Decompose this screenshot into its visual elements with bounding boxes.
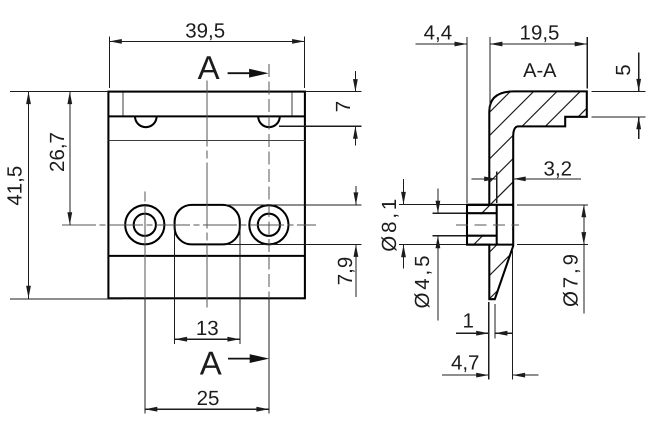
svg-text:25: 25 [197,387,220,410]
svg-text:7: 7 [332,101,355,112]
dim line 5 upper seg [638,53,640,92]
svg-text:7,9: 7,9 [334,257,357,286]
arrows 26,7 [67,92,72,105]
arrows section view [401,42,641,378]
outer rectangle of plate [108,92,305,299]
boss top edge into plate [467,204,513,206]
ext line d8,1 top [399,204,466,206]
dim line 3,2 left seg [472,178,497,180]
voids (holes) over hatch [466,206,512,244]
arrows d4,5 [436,201,441,214]
slot vertical centerline [206,81,208,308]
ext line d7,9 top [517,204,588,206]
centerlines front view [62,64,316,308]
arrows d7,9 [581,205,586,218]
hole axis horizontal centerline [62,224,316,226]
lip edge line [108,115,305,117]
dim line 7 upper seg [354,71,356,92]
svg-text:39,5: 39,5 [185,19,225,42]
ext line 5 bottom [592,116,646,118]
dim line 39,5 [109,40,304,42]
dim line 19,5 [490,43,587,45]
dim line 7,9 lower seg [355,244,357,297]
section internal edges [467,205,513,245]
dim line d8,1 upper seg [403,179,405,205]
svg-text:A-A: A-A [523,60,557,82]
hole left outer [125,205,164,244]
section arrow top [228,72,251,74]
dim line 1 right seg [495,332,513,334]
hole right outer [249,205,288,244]
part outline front view [108,92,305,299]
svg-text:4,4: 4,4 [424,22,453,45]
arrows d8,1 [401,192,406,205]
thin part edges front view [108,93,305,141]
dim line 4,7 right seg [513,374,539,376]
ext line 13 left (slot tangent) [174,225,176,344]
svg-text:41,5: 41,5 [4,166,27,206]
arrows front view [26,39,358,412]
dim line d8,1 lower seg [403,245,405,269]
svg-text:19,5: 19,5 [520,22,560,45]
ext line top-left [10,91,108,93]
section cutting line A-A dashed [268,64,270,298]
slot rounded rectangle [175,205,240,245]
section outline [467,91,587,299]
dim line 25 [145,408,269,410]
dim line d4,5 upper seg [437,189,439,214]
arrows 25 [145,407,158,412]
hatching [302,90,650,300]
ext line 13 right (slot tangent) [239,225,241,344]
section centerline [456,224,519,226]
ext line 4,4 left (boss face) [466,37,468,203]
boss bottom edge into plate [467,244,513,246]
arrows 4,7 [476,373,489,378]
ext line 39,5 right [304,37,306,89]
dim line 26,7 [69,92,71,225]
ext line 3,2 [496,172,498,204]
counterbore void [498,206,513,244]
ext line 5 top [592,90,646,92]
arrows 41,5 [26,92,31,105]
dim line 4,7 left seg [442,374,489,376]
ext line 1/4,7 left (leg face) [488,302,490,380]
svg-text:A: A [200,345,222,382]
arrows 5 [636,79,641,92]
ext line 7,9 bottom (slot bottom) [226,243,361,245]
taper edge line [108,255,305,257]
ext line 39,5 left [108,37,110,89]
through hole top [467,212,497,214]
arrows 7 [353,79,358,92]
dim line 5 lower seg [638,117,640,139]
notch left semicircle [135,116,157,127]
hole right inner [258,214,280,236]
left hole vertical centerline [144,192,146,299]
svg-text:4,7: 4,7 [451,352,480,375]
dimension lines front view [10,37,361,414]
ext line 7,9 top (slot top) [226,204,361,206]
ext line 4,4/19,5 (plate left face) [489,37,491,110]
svg-text:A: A [198,49,220,86]
dim line 7,9 upper seg [355,186,357,205]
ext line bottom-left [10,298,122,300]
svg-text:3,2: 3,2 [544,158,573,181]
through hole bottom [467,235,497,237]
counterbore bottom face [496,205,498,245]
tab line right [291,93,293,116]
arrows 4,4 [455,42,468,47]
notch right semicircle [258,116,280,127]
svg-text:26,7: 26,7 [46,132,69,172]
arrows 39,5 [109,39,122,44]
ext line d7,9 bottom [517,244,588,246]
dim line d4,5 lower seg [437,236,439,321]
through hole void [466,214,498,235]
ext line d4,5 bottom [433,235,466,237]
hole left inner [134,214,156,236]
svg-text:Ø7,9: Ø7,9 [560,254,583,307]
dim line 3,2 right seg [513,178,581,180]
arrow 19,5 right [575,42,588,47]
ext line 25 right below part [268,298,270,413]
ext line 4,7 right (plate face) [512,249,514,380]
dim line 7 lower seg [354,126,356,145]
svg-text:13: 13 [196,317,219,340]
ext line 25 left below part [144,298,146,413]
tab line left [122,93,124,116]
ext line d8,1 bottom [399,244,466,246]
svg-text:1: 1 [462,310,473,333]
ext line 7 top right [306,91,361,93]
arrows 3,2 [484,177,497,182]
dim line 1 left seg [456,332,489,334]
svg-text:Ø8,1: Ø8,1 [378,199,401,252]
ext line 1 right (tip edge) [494,304,496,338]
svg-text:5: 5 [612,64,635,75]
section arrow bottom [228,358,251,360]
dim line d7,9 with tail [583,205,585,314]
dim line 41,5 [28,92,30,299]
ext line 19,5 right [586,37,588,89]
arrows 13 [175,337,188,342]
arrows 1 [476,331,489,336]
ext line 7 bottom (notch depth) [279,125,361,127]
section dimensions [399,37,645,380]
svg-text:Ø4,5: Ø4,5 [411,256,434,309]
arrows 7,9 [354,192,359,205]
fillet tangent edge [108,139,305,141]
ext line d4,5 top [433,212,466,214]
dim line 4,4 [416,43,467,45]
dim line 13 [175,338,240,340]
